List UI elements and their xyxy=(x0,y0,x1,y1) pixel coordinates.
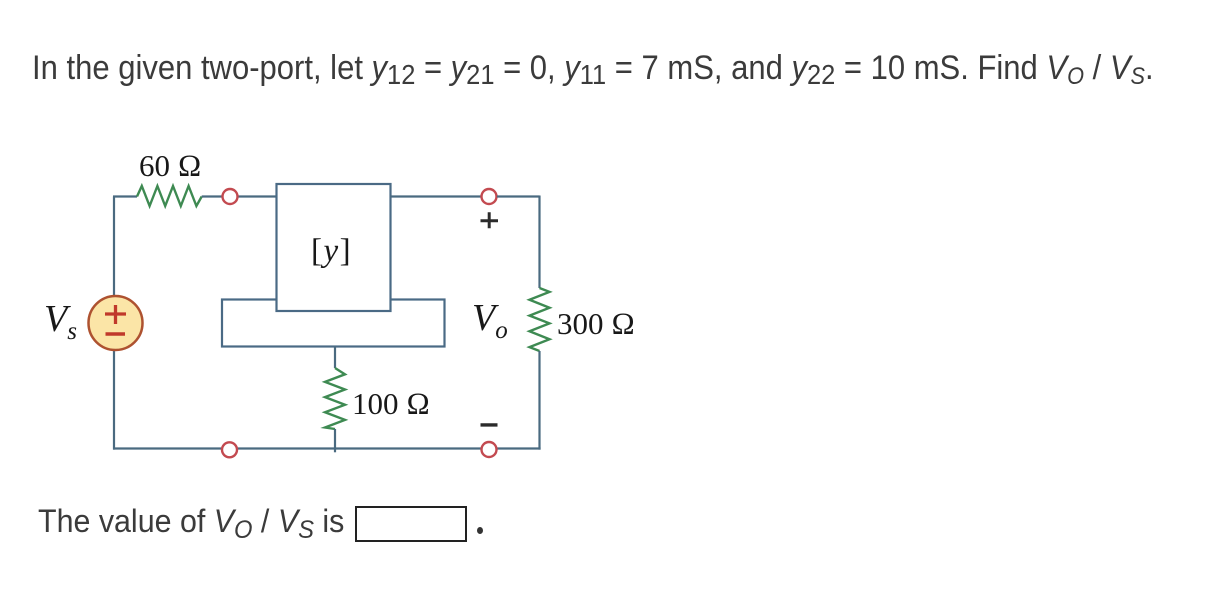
wire: terminal a to two-port box xyxy=(238,195,277,197)
terminal a (top-left port, open circle) xyxy=(223,189,238,204)
svg-text:60 Ω: 60 Ω xyxy=(139,148,202,183)
minus sign inside source xyxy=(106,332,126,335)
period after box xyxy=(477,527,483,534)
wire: top-left horizontal from corner to resistor R1 xyxy=(113,195,137,197)
svg-text:[y]: [y] xyxy=(311,233,352,269)
voltage source Vs (circle) xyxy=(89,296,143,350)
resistor 60 ohm zigzag xyxy=(137,186,202,206)
label + polarity of Vo xyxy=(481,212,499,228)
answer input box xyxy=(355,506,467,542)
resistor 100 ohm zigzag xyxy=(325,368,345,429)
wire: left vertical from top-left corner down to source top xyxy=(113,197,115,297)
label minus polarity of Vo xyxy=(481,423,498,426)
wire: resistor R2 bottom to bottom rail xyxy=(334,429,336,452)
two-port box [y] xyxy=(277,184,391,311)
svg-text:100 Ω: 100 Ω xyxy=(352,386,430,421)
wide bottom box of two-port network xyxy=(222,300,445,347)
svg-text:Vs: Vs xyxy=(44,298,77,345)
wire: terminal b to top-right corner xyxy=(497,195,540,197)
wire: box right side to terminal b xyxy=(391,195,482,197)
svg-text:Vo: Vo xyxy=(472,297,508,344)
wire: bottom rail xyxy=(113,447,541,449)
plus sign inside source xyxy=(105,305,126,324)
svg-text:300 Ω: 300 Ω xyxy=(557,306,635,341)
wire: right vertical down to resistor R3 xyxy=(538,196,540,289)
terminal d (bottom-right port, open circle) xyxy=(482,442,497,457)
wire: resistor R1 to terminal a xyxy=(202,195,222,197)
wire: resistor R3 bottom to bottom-right corner xyxy=(538,351,540,450)
wire: left vertical from source bottom to bottom rail xyxy=(113,350,115,450)
problem statement text xyxy=(32,51,1154,89)
answer sentence xyxy=(38,505,353,540)
terminal b (top-right port, open circle) xyxy=(482,189,497,204)
wire: wide box bottom to resistor R2 xyxy=(334,347,336,369)
terminal c (bottom-left port, open circle) xyxy=(222,442,237,457)
resistor 300 ohm zigzag xyxy=(530,288,550,351)
